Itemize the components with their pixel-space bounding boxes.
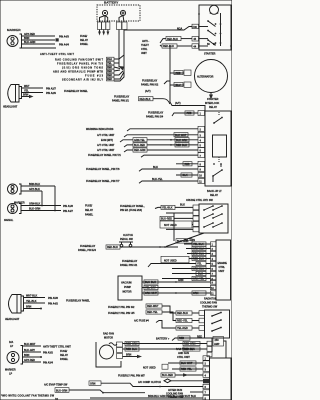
svg-text:YEL-RED: YEL-RED — [177, 327, 188, 330]
wire battery negative drops — [100, 16, 108, 23]
svg-text:ALTERNATOR: ALTERNATOR — [197, 76, 214, 79]
wire grn bottom — [102, 392, 203, 394]
marker lamp top left — [7, 28, 22, 48]
svg-text:ANTI-THEFT CTRL UNIT: ANTI-THEFT CTRL UNIT — [43, 345, 71, 348]
cruise input row2 — [166, 212, 193, 214]
headlight2 wire wht-blk — [24, 295, 58, 300]
ecu input grn-wht — [175, 279, 210, 283]
starter box — [198, 5, 231, 50]
svg-text:FUSE/RELAY PANEL: FUSE/RELAY PANEL — [66, 300, 90, 303]
svg-text:UNIT: UNIT — [141, 52, 147, 55]
AC control unit box — [210, 358, 232, 400]
svg-text:FUSE/RELAY: FUSE/RELAY — [122, 260, 138, 263]
svg-text:ECM (M/T): ECM (M/T) — [101, 139, 113, 142]
svg-text:BATTERY: BATTERY — [104, 1, 119, 5]
svg-text:RED-BLK: RED-BLK — [107, 246, 118, 249]
motor wire red-blu — [123, 347, 208, 351]
marker2 pin labels — [63, 205, 94, 217]
fuse rly pnl pin S2 wire — [108, 304, 199, 315]
wire pin S4 to relay — [172, 113, 198, 116]
svg-text:BLU-GRN: BLU-GRN — [56, 389, 67, 392]
svg-text:MARKER: MARKER — [5, 369, 16, 372]
svg-text:YEL-BLK: YEL-BLK — [162, 207, 173, 210]
svg-text:PANEL: PANEL — [85, 214, 94, 217]
250 amp fuse — [213, 337, 224, 347]
svg-text:A/T CTRL UNIT: A/T CTRL UNIT — [97, 144, 115, 147]
battery positive terminal — [120, 10, 125, 15]
ecu terminal numbers — [211, 244, 214, 296]
svg-text:BLK-GRY: BLK-GRY — [24, 349, 35, 352]
svg-text:FUSE/RELAY: FUSE/RELAY — [80, 245, 96, 248]
svg-text:PANEL PIN H/1: PANEL PIN H/1 — [120, 264, 138, 267]
svg-text:CTRL: CTRL — [219, 266, 226, 269]
alternator blu wire — [170, 82, 191, 87]
svg-text:SECONDARY AIR INJ RLY: SECONDARY AIR INJ RLY — [62, 78, 103, 81]
svg-text:D/A: D/A — [9, 341, 13, 344]
ecu input blk — [172, 271, 211, 275]
svg-text:YEL: YEL — [197, 263, 202, 266]
svg-text:ABS AND HYDRAULIC PUMP MTR: ABS AND HYDRAULIC PUMP MTR — [53, 70, 103, 73]
marker pin labels — [40, 36, 75, 56]
battery negative terminal — [102, 10, 107, 15]
after run label — [166, 389, 184, 399]
ecu input red-blu — [189, 256, 211, 260]
vertical thermo drop — [211, 338, 213, 352]
headlight wires — [22, 85, 44, 97]
motor connector strip — [117, 342, 123, 359]
svg-text:F30: F30 — [193, 26, 198, 29]
svg-text:FUSE/RELAY PANEL, PIN T/7: FUSE/RELAY PANEL, PIN T/7 — [86, 180, 120, 183]
fusible link labels left — [98, 22, 110, 30]
warning indicators wire — [86, 128, 198, 131]
wires to grounds — [100, 30, 108, 32]
svg-text:(S/S) DRS UNION TONS: (S/S) DRS UNION TONS — [62, 66, 103, 69]
svg-text:LP: LP — [10, 345, 13, 348]
AC unit terminal numbers — [205, 358, 207, 400]
fuse relay panel pin T1 wire — [88, 154, 198, 157]
ecu input 10 — [176, 287, 211, 289]
starter terminal boxes — [192, 24, 199, 29]
backup relay label — [207, 190, 222, 197]
svg-text:PIN E/1 (FUSE #13): PIN E/1 (FUSE #13) — [120, 209, 142, 212]
svg-text:MOTOR: MOTOR — [123, 291, 132, 294]
svg-text:BACK-UP LT: BACK-UP LT — [207, 190, 222, 193]
alternator red wire — [170, 70, 191, 75]
blk wire backup relay — [176, 173, 198, 177]
svg-text:RED: RED — [107, 78, 112, 81]
svg-text:PIN A3/4: PIN A3/4 — [43, 361, 53, 364]
wire battery positive drops — [119, 16, 124, 23]
headlight 2 housing — [9, 295, 24, 314]
svg-text:RELAY: RELAY — [209, 106, 217, 109]
svg-text:RED-BLU: RED-BLU — [184, 348, 195, 351]
svg-text:FUSE/RELAY: FUSE/RELAY — [114, 96, 130, 99]
svg-text:UNIT: UNIT — [219, 270, 225, 273]
svg-text:PANEL PIN S/4: PANEL PIN S/4 — [146, 116, 164, 119]
svg-text:FUSE/RELAY PANEL PIN T/5: FUSE/RELAY PANEL PIN T/5 — [57, 62, 104, 65]
svg-text:PIN A4/4: PIN A4/4 — [59, 44, 69, 47]
svg-text:PIN A4/3: PIN A4/3 — [59, 36, 69, 39]
fuse row 1 — [55, 55, 124, 61]
fuse row 5 — [85, 71, 123, 77]
DA lamp — [7, 346, 23, 365]
svg-text:GRN-YEL: GRN-YEL — [134, 139, 145, 142]
svg-text:A/C EVAP TEMP SW: A/C EVAP TEMP SW — [44, 383, 68, 386]
fuse relay panel pin T7 wire — [86, 178, 198, 183]
fuse relay panel pin S4 label — [146, 112, 164, 119]
alternator ground — [209, 93, 213, 100]
svg-text:GRN: GRN — [90, 382, 96, 385]
svg-text:BLU: BLU — [176, 84, 181, 87]
svg-text:BATTERY +: BATTERY + — [156, 338, 170, 341]
signal wires — [21, 183, 55, 191]
DA wire gry-red — [23, 359, 54, 364]
fan wire labels 2 — [183, 341, 200, 351]
svg-text:PANEL: PANEL — [80, 43, 89, 46]
headlight housing left — [8, 85, 22, 103]
svg-text:STARTER: STARTER — [207, 98, 219, 101]
svg-text:ANTI-THEFT CTRL UNIT: ANTI-THEFT CTRL UNIT — [40, 53, 75, 56]
svg-text:INTERLOCK: INTERLOCK — [205, 102, 219, 105]
fan terminal boxes — [207, 341, 212, 357]
svg-text:BLK-WHT: BLK-WHT — [24, 343, 36, 346]
starter feed labels — [177, 28, 183, 31]
svg-text:RED-WHT: RED-WHT — [147, 305, 159, 308]
svg-text:COOLING FAN: COOLING FAN — [200, 302, 217, 305]
vacuum pump wire 2 — [142, 285, 176, 289]
svg-text:BRN: BRN — [24, 354, 30, 357]
fuse row 6 — [62, 72, 124, 81]
cruise input row4 — [192, 224, 193, 226]
fuse bus junction — [118, 66, 124, 71]
cruise input blu-red — [160, 216, 193, 220]
svg-text:2GA: 2GA — [107, 58, 112, 61]
svg-text:FUSE/RELAY: FUSE/RELAY — [148, 112, 164, 115]
DA fuse panel bracket — [60, 350, 69, 361]
DA wire blk-gry — [23, 349, 54, 354]
svg-text:PIN A2/7: PIN A2/7 — [46, 87, 56, 90]
marker fuse panel bracket — [80, 35, 89, 46]
ecu input row8 — [162, 276, 211, 280]
fuse relay panel pin E1 label — [120, 205, 161, 212]
unit input row1 — [168, 361, 203, 365]
fuse row 2 — [57, 61, 119, 65]
relay coil — [213, 135, 227, 162]
fuse row 4 — [53, 69, 120, 73]
not used box A — [160, 221, 192, 228]
svg-text:PEDAL SW: PEDAL SW — [120, 238, 134, 241]
svg-text:RED: RED — [107, 70, 112, 73]
svg-text:BLU-RED: BLU-RED — [134, 144, 145, 147]
clutch pedal switch — [119, 242, 133, 248]
fuse relay panel pin K2 label — [141, 80, 170, 87]
svg-text:BLU-RED: BLU-RED — [161, 218, 172, 221]
svg-text:THERMO SW: THERMO SW — [202, 306, 218, 309]
svg-text:BRN-BLK: BRN-BLK — [29, 183, 40, 186]
svg-text:GRN-BLK: GRN-BLK — [29, 203, 40, 206]
A/T ctrl unit wire 1 — [97, 133, 198, 137]
svg-text:AND FAN: AND FAN — [178, 352, 189, 355]
svg-text:RED-BLK: RED-BLK — [163, 45, 174, 48]
svg-text:RED-GRN: RED-GRN — [134, 149, 146, 152]
svg-text:PANEL PIN K/2: PANEL PIN K/2 — [141, 84, 159, 87]
wire bottom row 2 — [69, 390, 103, 393]
wire vertical E1 drop — [173, 213, 175, 241]
ECM wire — [101, 138, 198, 142]
svg-text:BLU-RED: BLU-RED — [162, 374, 173, 377]
red label to relay — [185, 111, 194, 115]
vacuum pump wire 1 — [142, 280, 176, 284]
svg-text:RAD FAN: RAD FAN — [103, 333, 114, 336]
svg-text:PIN A5/8: PIN A5/8 — [48, 297, 58, 300]
svg-text:RED: RED — [179, 337, 184, 340]
radiator thermo sw box — [205, 310, 230, 338]
starter interlock relay box — [205, 111, 231, 186]
wire bus down long — [114, 30, 124, 81]
fuse rly pnl M7 wire — [118, 373, 203, 378]
fuse relay panel pin E4 wire — [78, 245, 178, 252]
A/C evap temp sw wire — [44, 381, 203, 388]
svg-text:AMP: AMP — [214, 343, 220, 346]
cruise switch contacts — [203, 205, 223, 228]
marker LP label — [5, 369, 16, 376]
svg-text:RED: RED — [107, 74, 112, 77]
svg-text:RED-YEL: RED-YEL — [177, 320, 188, 323]
blu-grn label — [176, 239, 192, 244]
svg-text:RELAY: RELAY — [210, 194, 218, 197]
headlight2 wire brn — [24, 306, 42, 310]
svg-text:FUSE/RELAY PANEL,: FUSE/RELAY PANEL, — [120, 205, 145, 208]
yel-grn diagonal — [166, 233, 204, 247]
svg-text:YEL-BLK: YEL-BLK — [26, 300, 37, 303]
svg-text:FUSE/: FUSE/ — [60, 350, 68, 353]
svg-text:FUSE/: FUSE/ — [85, 205, 93, 208]
svg-text:RED-YEL: RED-YEL — [147, 311, 158, 314]
svg-text:BLK-GRN: BLK-GRN — [176, 139, 187, 142]
svg-text:PIN A4/7: PIN A4/7 — [63, 210, 73, 213]
AC unit terminal boxes — [203, 356, 210, 400]
svg-text:BLK-GRN: BLK-GRN — [24, 41, 35, 44]
svg-text:RELAY: RELAY — [85, 209, 93, 212]
svg-text:PANEL PIN 2/1: PANEL PIN 2/1 — [112, 100, 129, 103]
svg-text:HEADLIGHT: HEADLIGHT — [3, 106, 18, 109]
svg-text:PANEL, PIN E/4: PANEL, PIN E/4 — [78, 249, 96, 252]
red-blk label 1 — [160, 37, 192, 44]
svg-text:PANEL: PANEL — [60, 358, 69, 361]
A/T ctrl unit wire 3 — [97, 148, 198, 152]
cruise switch terminals — [193, 205, 199, 232]
alternator U1 — [195, 60, 228, 93]
not used box 2 — [161, 256, 189, 263]
relay lower contacts — [212, 163, 223, 182]
svg-text:A/C FUSE #4: A/C FUSE #4 — [134, 320, 149, 323]
headlight2 wire yel-blk — [24, 300, 58, 305]
svg-text:BRN: BRN — [24, 37, 30, 40]
svg-text:RED: RED — [176, 72, 181, 75]
svg-text:RED-BLK: RED-BLK — [176, 144, 187, 147]
cruise input row5 — [166, 228, 193, 230]
motor wire brn ground — [123, 354, 143, 359]
svg-text:CRUISE CTRL HYD SW: CRUISE CTRL HYD SW — [186, 199, 213, 202]
ecu input 11 — [175, 291, 210, 295]
clutch pedal switch label — [120, 234, 134, 241]
svg-text:BLK-WHT: BLK-WHT — [175, 134, 187, 137]
svg-text:GRY-RED: GRY-RED — [24, 33, 35, 36]
svg-text:RED-BLK: RED-BLK — [167, 38, 178, 41]
svg-text:FUSE/RLY PNL PIN S/2: FUSE/RLY PNL PIN S/2 — [108, 306, 135, 309]
svg-text:A/C COMP CLUTCH: A/C COMP CLUTCH — [138, 381, 161, 384]
svg-text:NCA: NCA — [177, 28, 183, 31]
vacuum pump motor box — [118, 276, 142, 300]
red wire backup relay — [176, 162, 198, 166]
svg-text:RELAY: RELAY — [80, 39, 88, 42]
svg-text:BLU-GRN: BLU-GRN — [177, 240, 188, 243]
svg-text:THEFT: THEFT — [141, 44, 149, 47]
svg-text:ANTI -: ANTI - — [142, 40, 149, 43]
svg-text:RED: RED — [107, 66, 112, 69]
anti-theft ctrl unit box top — [141, 40, 149, 55]
svg-text:RADIATOR: RADIATOR — [204, 298, 217, 301]
svg-text:250: 250 — [215, 339, 220, 342]
svg-text:ENGINE: ENGINE — [218, 262, 228, 265]
svg-text:WHT-BLK: WHT-BLK — [26, 295, 37, 298]
marker lamp 2 left — [4, 204, 21, 223]
marker wire labels — [24, 33, 35, 44]
svg-text:RED-GRN: RED-GRN — [184, 343, 196, 346]
A/C fuse 4 wire — [134, 320, 199, 331]
svg-text:(A/T): (A/T) — [175, 102, 181, 105]
A/T ctrl unit wire 2 — [97, 143, 198, 147]
ecu input yel-blk — [184, 242, 211, 246]
wire long bottom — [90, 395, 203, 398]
svg-text:RELAY: RELAY — [60, 354, 68, 357]
svg-text:NOT USED: NOT USED — [164, 224, 177, 227]
svg-text:NOT USED: NOT USED — [143, 367, 156, 370]
A/T label — [145, 90, 181, 105]
thermo sw terminals — [199, 311, 205, 331]
svg-text:VACUUM: VACUUM — [121, 282, 132, 285]
marker wires — [22, 36, 57, 48]
rad temp sw ctrl label — [176, 348, 194, 359]
svg-text:BLK: BLK — [180, 204, 185, 207]
cruise switch box — [199, 204, 228, 233]
rad fan motor — [100, 343, 118, 359]
relay terminal boxes — [199, 113, 202, 184]
svg-text:YEL: YEL — [24, 90, 29, 93]
wire vertical bus to relay — [170, 46, 205, 111]
svg-text:PIN A3/2: PIN A3/2 — [43, 351, 53, 354]
svg-text:PIN A1/8: PIN A1/8 — [63, 205, 73, 208]
engine ctrl unit box — [216, 240, 231, 300]
DA wire blk-wht — [23, 343, 72, 348]
motor wire red-grn — [123, 341, 208, 345]
svg-text:FUSE/RELAY PANEL: FUSE/RELAY PANEL — [64, 90, 88, 93]
headlight pin labels — [46, 87, 88, 95]
svg-text:WARNING INDICATORS: WARNING INDICATORS — [86, 128, 114, 131]
svg-text:CTRL UNIT: CTRL UNIT — [177, 356, 190, 359]
fusible link labels right — [117, 22, 128, 30]
svg-text:CTRL: CTRL — [141, 48, 148, 51]
svg-text:A/T CTRL UNIT: A/T CTRL UNIT — [97, 149, 115, 152]
svg-text:GRY-RED: GRY-RED — [24, 359, 35, 362]
battery dashed box — [97, 5, 140, 21]
not used bottom — [143, 364, 168, 369]
fuse row 3 — [62, 65, 120, 69]
DA wire brn — [23, 354, 43, 358]
relay contact — [213, 112, 223, 124]
radiator thermo sw label — [200, 298, 218, 309]
svg-text:GRY-BLK: GRY-BLK — [29, 188, 40, 191]
svg-text:FUSE #23: FUSE #23 — [85, 74, 104, 77]
svg-text:FUSE/RELAY: FUSE/RELAY — [142, 80, 158, 83]
svg-text:SIGNAL: SIGNAL — [4, 219, 14, 222]
ecu input grn-blu — [172, 266, 211, 270]
headlight ground arrow — [29, 95, 34, 99]
fuse rly pnl pin U5 wire — [108, 310, 199, 323]
svg-text:FUSE/RELAY PANEL PIN T/1: FUSE/RELAY PANEL PIN T/1 — [88, 154, 121, 157]
svg-text:LP: LP — [9, 373, 12, 376]
footnote labels — [55, 388, 69, 393]
svg-text:RED: RED — [197, 336, 202, 339]
svg-text:50: 50 — [207, 43, 210, 46]
svg-text:BRN: BRN — [23, 94, 29, 97]
svg-text:*W/O WHT/2 COOLANT FAN THERMO: *W/O WHT/2 COOLANT FAN THERMO SW — [1, 395, 55, 398]
svg-text:HEADLIGHT: HEADLIGHT — [5, 318, 20, 321]
ecu input grn-blk — [186, 246, 211, 250]
A/C comp clutch wire — [138, 379, 203, 384]
DA lamp label — [9, 341, 13, 348]
svg-text:PUMP: PUMP — [124, 286, 131, 289]
starter interlock relay label — [205, 98, 219, 109]
svg-text:FUSE/RLY PNL PIN M/7: FUSE/RLY PNL PIN M/7 — [118, 375, 145, 378]
rad fan motor label — [103, 333, 114, 340]
svg-text:RED-BLK: RED-BLK — [177, 312, 188, 315]
svg-text:PIN A2/9: PIN A2/9 — [46, 92, 56, 95]
svg-text:RED: RED — [187, 112, 192, 115]
ecu input brn-blu — [187, 251, 211, 255]
wire fuse to unit — [224, 341, 227, 358]
svg-text:BRN-BLU GRN BRN-BLU GRN WHT BL: BRN-BLU GRN BRN-BLU GRN WHT BLK — [148, 395, 196, 398]
svg-text:MARKER: MARKER — [7, 28, 21, 32]
fuse relay panel pin 21 wire — [112, 96, 170, 105]
fuse relay panel pin H1 wire — [120, 260, 211, 267]
unit input row2 — [172, 367, 203, 371]
svg-text:YEL: YEL — [107, 62, 112, 65]
cruise input yel-blk — [161, 204, 193, 210]
svg-text:FUSE/RELAY PANEL, PIN T/6: FUSE/RELAY PANEL, PIN T/6 — [86, 168, 120, 171]
signal wire drops — [41, 186, 56, 211]
svg-text:CLUTCH: CLUTCH — [123, 234, 133, 237]
svg-text:MOTOR: MOTOR — [104, 337, 113, 340]
marker2 wires — [21, 203, 61, 211]
svg-text:FUSE/: FUSE/ — [80, 35, 88, 38]
fuse relay panel pin T6 wire — [86, 166, 198, 171]
svg-text:WHT: WHT — [24, 85, 30, 88]
signal lamp left — [8, 184, 25, 205]
svg-text:RED-BLK: RED-BLK — [140, 98, 151, 101]
red-blk label 2 — [160, 44, 192, 48]
svg-text:A/T CTRL UNIT: A/T CTRL UNIT — [97, 134, 115, 137]
motor enclosure — [96, 342, 121, 367]
battery plus wire — [156, 336, 213, 341]
svg-text:BLK-GRN: BLK-GRN — [29, 208, 40, 211]
svg-text:STARTER: STARTER — [204, 53, 216, 56]
wire to starter feed — [124, 27, 192, 31]
svg-text:(A/T): (A/T) — [145, 90, 151, 93]
starter contacts — [198, 13, 232, 47]
svg-text:FUSE/RLY PNL PIN U/5: FUSE/RLY PNL PIN U/5 — [108, 312, 135, 315]
wire bus down left — [118, 30, 120, 68]
